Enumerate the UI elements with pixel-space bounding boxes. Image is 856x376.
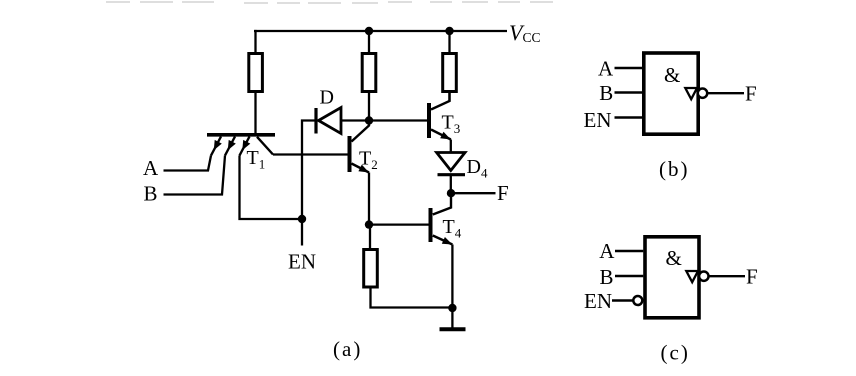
wire output F of (c) [709,275,745,277]
transistor T3 [429,92,451,140]
wire T2 emitter down [368,173,370,225]
wire rail to R2 [368,31,370,53]
svg-text:B: B [599,81,613,105]
svg-text:(a): (a) [333,337,362,361]
svg-text:A: A [599,239,615,263]
ground [440,308,466,329]
gate symbol (b) box [644,53,698,134]
wire input A of (c) [615,250,643,252]
transistor T1 multi-emitter [207,135,275,156]
diode D4 [437,153,465,175]
resistor R1 [249,54,263,92]
node ground junction [448,304,456,312]
wire rail to R1 [254,30,256,53]
wire R1 to T1 base [254,92,256,134]
wire node M to R4 [369,225,371,250]
node K junction [365,116,373,124]
wire EN stub down [301,219,303,246]
wire node M to T4 base [369,223,429,225]
node rail-R3 junction [445,27,453,35]
wire input B [164,156,226,195]
tristate triangle of (b) [685,88,697,99]
svg-text:T4: T4 [443,216,462,241]
bubble on EN input of (c) [633,296,642,305]
svg-text:B: B [144,182,158,206]
Vcc rail [254,30,507,32]
wire input A of (b) [615,67,643,69]
node F junction [447,189,455,197]
svg-text:F: F [497,181,509,205]
wire T4 emitter to ground [451,245,453,309]
wire input B of (c) [615,275,643,277]
inversion bubble of (c) [699,272,708,281]
tristate triangle of (c) [686,271,698,282]
gate symbol (c) box [645,237,699,318]
wire input EN of (c) [612,299,633,301]
svg-text:EN: EN [584,289,612,313]
transistor T2 [350,121,370,173]
wire D4 to node F [450,175,452,194]
wire R2 to node K [368,92,370,121]
wire input B of (b) [615,91,643,93]
wire R3 to T3 collector [448,92,450,102]
svg-text:(c): (c) [661,341,690,365]
svg-text:A: A [598,56,614,80]
svg-text:&: & [664,63,680,87]
diode D [316,108,341,134]
resistor R2 [362,54,376,92]
wire EN node up to diode D [302,121,315,220]
resistor R4 [364,250,378,288]
svg-text:F: F [745,82,757,106]
wire to F output [451,192,496,194]
resistor R3 [443,54,457,92]
wire emitter3 to EN node [240,156,303,220]
svg-text:D: D [320,87,334,109]
svg-text:T3: T3 [442,112,461,137]
node EN junction [298,215,306,223]
svg-text:B: B [600,265,614,289]
svg-text:&: & [666,246,682,270]
svg-text:EN: EN [288,250,316,274]
svg-text:VCC: VCC [509,20,540,45]
wire D anode to node K [341,119,369,121]
wire node K to T3 base [369,119,427,121]
svg-text:T2: T2 [359,148,378,173]
wire input EN of (b) [615,116,643,118]
transistor T4 [431,193,453,244]
node M junction [365,220,373,228]
svg-text:(b): (b) [659,157,690,181]
wire rail to R3 [448,31,450,53]
wire R4 to ground node [371,287,453,308]
svg-text:F: F [746,265,758,289]
wire T3 emitter to D4 [450,140,452,154]
svg-text:D4: D4 [467,156,488,181]
wire T1 collector to T2 base [273,153,348,155]
node rail-R2 junction [365,27,373,35]
svg-text:A: A [143,156,159,180]
svg-text:T1: T1 [247,147,266,172]
svg-text:EN: EN [584,108,612,132]
scan noise top row [106,2,553,3]
wire input A [164,156,212,171]
wire output F of (b) [707,92,744,94]
inversion bubble of (b) [698,89,707,98]
